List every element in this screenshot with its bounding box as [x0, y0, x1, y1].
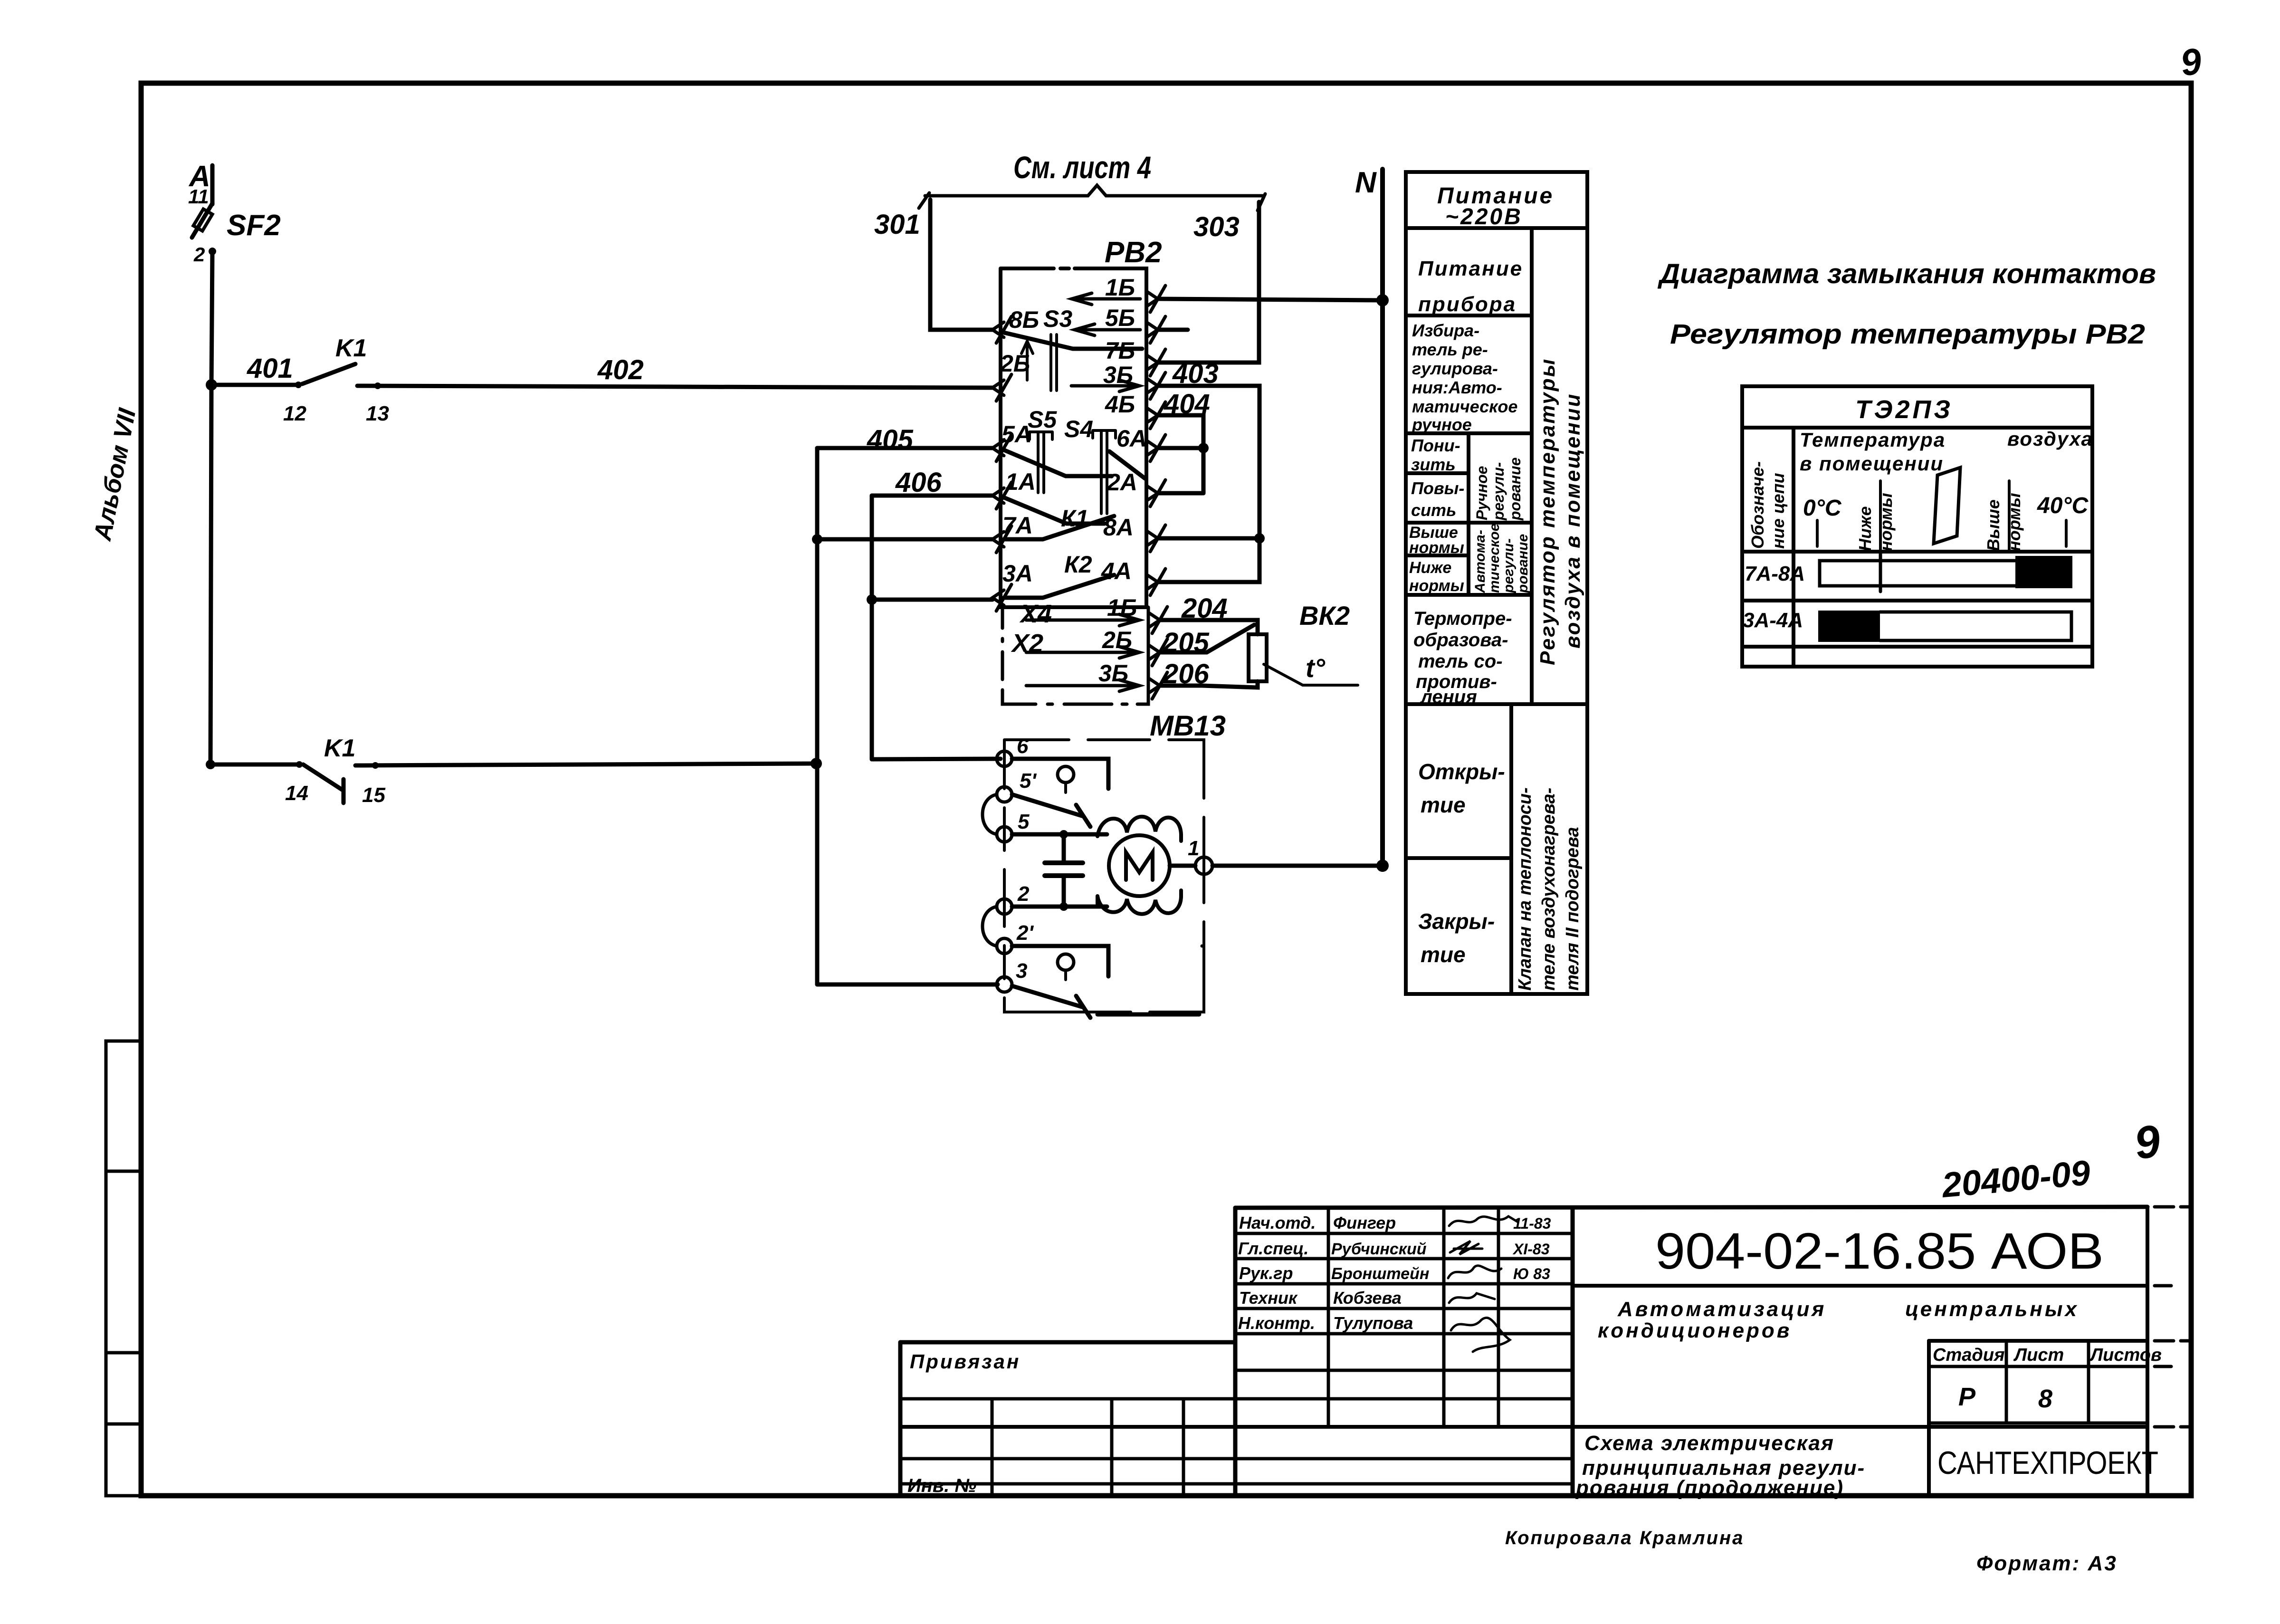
terminal 2 dot	[209, 248, 216, 255]
svg-text:15: 15	[362, 783, 385, 807]
left margin box 4	[106, 1424, 141, 1496]
terminal 2' circle	[997, 938, 1012, 954]
svg-text:ления: ления	[1420, 687, 1477, 707]
svg-text:5А: 5А	[1002, 421, 1032, 448]
privyazan box top	[900, 1340, 1235, 1345]
svg-text:204: 204	[1181, 593, 1228, 624]
signature table row 6 line	[1235, 1369, 1573, 1372]
junction dot V2 row 3А	[867, 594, 877, 605]
svg-text:Ручное: Ручное	[1473, 466, 1490, 520]
svg-text:Ниже: Ниже	[1409, 559, 1451, 577]
breaker SF2 blade	[192, 203, 212, 238]
svg-text:регули-: регули-	[1490, 462, 1507, 521]
scale tick 40°С	[2065, 520, 2068, 546]
signature table column sign	[1442, 1208, 1446, 1427]
svg-text:2А: 2А	[1107, 469, 1137, 496]
pin 1А left chevron	[992, 482, 1011, 509]
svg-text:тическое: тическое	[1487, 524, 1502, 593]
svg-text:Н.контр.: Н.контр.	[1238, 1313, 1315, 1333]
arrow on 3Б row	[1071, 380, 1139, 392]
limit switch roller stem bottom	[1064, 970, 1067, 980]
junction dot at 401	[206, 379, 217, 391]
svg-text:S5: S5	[1028, 406, 1057, 433]
svg-text:Рук.гр: Рук.гр	[1239, 1263, 1293, 1283]
svg-text:Температура: Температура	[1800, 429, 1946, 451]
terminal 3 circle	[997, 977, 1012, 992]
svg-text:K1: K1	[324, 735, 355, 762]
svg-text:Автоматизация: Автоматизация	[1617, 1298, 1826, 1321]
wire terminal 1 to N	[1212, 864, 1383, 868]
junction dot at lower K1	[206, 760, 215, 769]
wire terminal 6 to limit switch	[1012, 759, 1108, 789]
drawing frame border	[141, 83, 2191, 1496]
bar tick at ниже нормы	[1879, 551, 1882, 592]
svg-text:Гл.спец.: Гл.спец.	[1238, 1239, 1308, 1258]
left margin box 2	[106, 1171, 141, 1353]
lower columns v3	[1182, 1399, 1185, 1496]
stamp top edge	[1235, 1207, 2147, 1208]
svg-text:303: 303	[1193, 211, 1240, 242]
svg-text:рование: рование	[1515, 534, 1531, 593]
sensor t-degree leader	[1264, 664, 1358, 685]
svg-text:2: 2	[1017, 882, 1030, 906]
vertical V1	[815, 448, 820, 984]
svg-text:центральных: центральных	[1905, 1298, 2079, 1321]
svg-text:регули-: регули-	[1501, 538, 1517, 593]
svg-text:нормы: нормы	[1409, 577, 1464, 595]
svg-text:МВ13: МВ13	[1150, 710, 1226, 742]
link 5'-5 bracket	[983, 794, 997, 834]
svg-text:воздуха в помещении: воздуха в помещении	[1561, 393, 1584, 649]
contact bar 3А-4А filled segment	[1818, 611, 1880, 642]
svg-text:К1: К1	[1061, 505, 1089, 532]
device table ТЭ2ПЗ outer box	[1742, 386, 2092, 667]
svg-text:K1: K1	[335, 334, 367, 362]
svg-text:тель ре-: тель ре-	[1412, 340, 1488, 359]
limit switch blade top	[1012, 794, 1090, 827]
junction dot V1 row 7А	[812, 534, 822, 545]
pin 5А left chevron	[992, 435, 1011, 461]
svg-text:Клапан на теплоноси-: Клапан на теплоноси-	[1515, 787, 1535, 991]
pin 2А right chevron	[1146, 480, 1165, 506]
svg-text:нормы: нормы	[1409, 539, 1464, 557]
limit switch roller top	[1058, 766, 1074, 783]
svg-text:Пони-: Пони-	[1411, 436, 1460, 455]
contact K1 terminal 12 dot	[295, 382, 302, 388]
svg-text:3А: 3А	[1002, 560, 1033, 587]
lower columns v2	[1110, 1399, 1114, 1496]
svg-text:прибора: прибора	[1418, 293, 1517, 316]
wire terminal 5 to motor	[1012, 832, 1107, 837]
boundary tick ниже нормы	[1879, 481, 1882, 551]
wire 206	[1160, 681, 1258, 688]
wire 4А from 403 vertical	[1158, 538, 1259, 582]
wire 301 vertical	[930, 200, 992, 330]
signature table column name	[1327, 1208, 1330, 1427]
limit switch blade bottom	[1012, 986, 1090, 1018]
sig row 3 autograph	[1448, 1266, 1501, 1278]
wire SF2 to junction	[211, 251, 212, 385]
function table row line 1	[1406, 314, 1532, 317]
wire 404	[1158, 415, 1203, 493]
contact K1 inside РВ2	[1004, 516, 1114, 539]
signature table row 5 line	[1235, 1332, 1573, 1336]
svg-text:Выше: Выше	[1984, 499, 2003, 551]
svg-text:8А: 8А	[1103, 514, 1134, 541]
svg-text:Стадия: Стадия	[1933, 1345, 2004, 1365]
valve section rotated column divider	[1509, 704, 1513, 994]
motor M letter	[1126, 852, 1153, 880]
svg-text:Откры-: Откры-	[1418, 759, 1505, 784]
left margin box 3	[106, 1353, 141, 1424]
svg-text:ВК2: ВК2	[1299, 601, 1350, 630]
svg-text:11-83: 11-83	[1513, 1215, 1551, 1232]
svg-text:12: 12	[283, 402, 306, 425]
boundary tick выше нормы	[2008, 481, 2011, 551]
pin 4А right chevron	[1146, 569, 1165, 595]
svg-text:К2: К2	[1064, 551, 1092, 578]
switch S5 manual drive T-bar	[1030, 432, 1052, 439]
signature table row 7 line	[1235, 1397, 1573, 1401]
svg-text:1Б: 1Б	[1105, 274, 1135, 301]
stage column divider 1	[2005, 1341, 2008, 1423]
stage column divider 2	[2087, 1341, 2090, 1423]
svg-text:См. лист 4: См. лист 4	[1013, 150, 1151, 185]
terminal 6 circle	[997, 751, 1012, 766]
terminal 5' circle	[997, 787, 1012, 802]
switch S4 manual drive T-bar	[1093, 430, 1116, 438]
link 2-2' bracket	[983, 907, 1202, 946]
svg-text:Избира-: Избира-	[1412, 321, 1479, 340]
motor winding bottom scallops	[1097, 890, 1181, 914]
switch blade from 1А	[1004, 497, 1105, 524]
svg-text:4А: 4А	[1101, 558, 1132, 584]
sig row 5 autograph	[1451, 1318, 1510, 1352]
svg-text:матическое: матическое	[1412, 397, 1517, 416]
signature table row 1 line	[1235, 1232, 1573, 1235]
switch S5 linkage	[1038, 432, 1044, 493]
wire 403	[1158, 386, 1259, 538]
svg-text:ТЭ2ПЗ: ТЭ2ПЗ	[1855, 395, 1953, 424]
junction dot capacitor bottom	[1059, 902, 1068, 911]
wire 5Б stub	[1158, 328, 1188, 332]
stage header box top	[1929, 1339, 2147, 1343]
svg-text:Питание: Питание	[1418, 257, 1523, 280]
svg-text:3А-4А: 3А-4А	[1743, 609, 1803, 632]
svg-text:Рубчинский: Рубчинский	[1331, 1240, 1427, 1258]
wire motor to circle 1	[1170, 864, 1195, 868]
svg-text:14: 14	[285, 782, 308, 805]
svg-text:Инв. №: Инв. №	[907, 1475, 976, 1496]
limit switch roller bottom	[1058, 954, 1074, 970]
terminal 14 dot	[296, 761, 303, 768]
wire V2 bottom to МВ13 terminal 6	[872, 759, 1001, 759]
device table row line C	[1742, 645, 2092, 649]
motor winding top scallops	[1097, 817, 1181, 841]
privyazan lower row line	[900, 1397, 1235, 1401]
function table row line 5	[1406, 554, 1469, 557]
sensor ВК2 resistor body	[1249, 634, 1267, 681]
device table header line	[1742, 426, 2092, 430]
pin X2-3Б arrow	[1026, 680, 1139, 691]
svg-text:2Б: 2Б	[1102, 627, 1132, 653]
svg-text:сить: сить	[1411, 500, 1456, 520]
switch S5 blade from 5А	[1004, 450, 1112, 476]
dash continuation row 4	[2155, 1425, 2191, 1429]
motor M circle	[1109, 835, 1170, 896]
svg-text:404: 404	[1164, 389, 1210, 420]
pin X2-2Б chevron	[1148, 639, 1167, 666]
junction dot on N at motor wire	[1376, 860, 1389, 872]
svg-text:САНТЕХПРОЕКТ: САНТЕХПРОЕКТ	[1937, 1445, 2158, 1481]
wire 303 vertical to 7Б row	[1158, 202, 1259, 363]
svg-text:Тулупова: Тулупова	[1333, 1313, 1413, 1333]
wire 405 horizontal	[817, 446, 992, 450]
stamp left edge signature table	[1233, 1208, 1238, 1496]
wire 8А to 403 vertical	[1158, 536, 1259, 541]
device table row line A	[1742, 550, 2092, 554]
stamp right edge	[2146, 1207, 2149, 1496]
svg-text:402: 402	[597, 354, 644, 385]
svg-text:7Б: 7Б	[1105, 337, 1135, 364]
valve section open/close divider	[1406, 856, 1511, 860]
svg-text:11: 11	[188, 185, 209, 208]
svg-text:в помещении: в помещении	[1800, 452, 1944, 475]
svg-text:3Б: 3Б	[1098, 660, 1128, 687]
dash continuation row 1	[2155, 1205, 2191, 1209]
svg-text:2: 2	[193, 243, 205, 266]
svg-text:нормы: нормы	[2004, 493, 2024, 551]
svg-text:SF2: SF2	[227, 209, 281, 242]
svg-text:7А-8А: 7А-8А	[1745, 562, 1805, 585]
junction dot 6А	[1198, 443, 1209, 453]
svg-text:гулирова-: гулирова-	[1412, 359, 1498, 378]
function table row line 2	[1406, 431, 1532, 435]
arrow on 5Б row	[1075, 324, 1140, 335]
terminal 13 dot	[374, 382, 381, 389]
see-sheet-4 bracket line	[925, 185, 1263, 196]
terminal 15 dot	[372, 762, 379, 769]
svg-text:тие: тие	[1421, 942, 1466, 967]
wire row 3А	[872, 598, 992, 602]
wire from lower K1 to vertical V1	[355, 764, 816, 765]
svg-text:воздуха: воздуха	[2007, 428, 2093, 450]
junction dot 8А	[1254, 533, 1265, 544]
capacitor stem top	[1062, 834, 1066, 863]
function table right column divider	[1530, 228, 1534, 704]
svg-text:Термопре-: Термопре-	[1413, 608, 1512, 629]
svg-text:Р: Р	[1958, 1383, 1976, 1411]
sig row 4 autograph	[1449, 1293, 1495, 1303]
device РВ2 outline dash	[1060, 267, 1069, 270]
svg-text:N: N	[1355, 166, 1377, 199]
svg-text:ние цепи: ние цепи	[1768, 473, 1788, 549]
svg-text:Копировала Крамлина: Копировала Крамлина	[1505, 1528, 1744, 1548]
wire row 7А	[817, 537, 992, 542]
svg-text:Регулятор температуры РВ2: Регулятор температуры РВ2	[1670, 319, 2145, 350]
limit switch roller stem top	[1064, 783, 1067, 793]
svg-text:Регулятор температуры: Регулятор температуры	[1536, 358, 1559, 665]
pin 2Б left chevron	[992, 374, 1011, 401]
junction dot capacitor top	[1059, 830, 1068, 839]
function table outer box	[1406, 172, 1587, 994]
svg-text:5: 5	[1018, 810, 1030, 833]
junction dot V1 at K1 wire	[811, 758, 822, 769]
svg-text:1: 1	[1188, 837, 1199, 860]
svg-text:6: 6	[1017, 735, 1029, 758]
svg-text:Техник: Техник	[1239, 1288, 1298, 1308]
svg-text:3: 3	[1016, 959, 1027, 983]
stamp mid horizontal line	[900, 1425, 2147, 1429]
svg-text:401: 401	[247, 353, 293, 384]
svg-text:5': 5'	[1020, 769, 1037, 793]
svg-text:205: 205	[1163, 627, 1210, 658]
svg-text:Кобзева: Кобзева	[1333, 1288, 1402, 1308]
svg-text:Ниже: Ниже	[1855, 506, 1875, 551]
svg-text:301: 301	[874, 209, 920, 240]
contact bar 7А-8А outline	[1820, 561, 2017, 586]
svg-text:ручное: ручное	[1412, 415, 1472, 434]
stage header box bottom	[1929, 1365, 2147, 1368]
line under document number	[1573, 1284, 2147, 1288]
pin 7Б right chevron	[1146, 349, 1165, 376]
pin 5Б right chevron	[1146, 316, 1165, 343]
svg-text:2': 2'	[1016, 921, 1034, 945]
svg-text:405: 405	[867, 424, 914, 455]
lower columns v1	[991, 1399, 994, 1496]
stamp lower rows line b	[900, 1482, 1573, 1486]
svg-text:Бронштейн: Бронштейн	[1331, 1265, 1429, 1283]
svg-text:тие: тие	[1421, 793, 1466, 817]
svg-text:XI-83: XI-83	[1512, 1241, 1550, 1258]
svg-text:40°С: 40°С	[2037, 493, 2089, 518]
breaker SF2 box symbol	[193, 209, 212, 231]
svg-text:Повы-: Повы-	[1411, 478, 1464, 498]
svg-text:Нач.отд.: Нач.отд.	[1239, 1213, 1316, 1232]
pin 7А left chevron	[992, 526, 1011, 553]
sig row 2 autograph	[1450, 1241, 1482, 1254]
svg-text:РВ2: РВ2	[1105, 236, 1162, 269]
pin X2-2Б arrow	[1026, 647, 1139, 658]
wire to contact K1 lower	[210, 763, 299, 767]
stamp vertical title area left	[1571, 1208, 1575, 1496]
stage box left edge	[1927, 1341, 1931, 1496]
function table row line 3	[1406, 471, 1469, 475]
signature table row 3 line	[1235, 1282, 1573, 1286]
wire 406 horizontal	[872, 494, 992, 498]
pin 8Б left chevron	[992, 316, 1011, 343]
svg-text:рование: рование	[1507, 458, 1524, 521]
dash continuation row 5	[2155, 1284, 2171, 1288]
wire V1 bottom to МВ13 terminal 3	[817, 983, 998, 987]
contact bar 3А-4А outline	[1880, 612, 2071, 640]
vertical V2	[870, 496, 874, 759]
wire 2А from 404 vertical	[1158, 491, 1203, 496]
motor terminal 1 circle	[1195, 857, 1212, 874]
arrow on 1Б row	[1072, 293, 1140, 305]
pin 3Б right chevron	[1146, 373, 1165, 399]
wire from phase A down to breaker SF2	[210, 165, 215, 204]
svg-text:Автома-: Автома-	[1472, 530, 1488, 593]
svg-text:ния:Авто-: ния:Авто-	[1412, 378, 1502, 397]
wire 6А to junction	[1158, 446, 1203, 450]
pin 1Б right chevron	[1146, 286, 1165, 312]
signature table column date	[1497, 1208, 1500, 1427]
wire 204	[1160, 620, 1258, 634]
dash continuation row 3	[2155, 1365, 2171, 1368]
setpoint parallelogram	[1934, 468, 1960, 544]
wire terminal 2 to motor	[1012, 905, 1107, 909]
contact K2 inside РВ2	[1004, 575, 1114, 598]
pin X2-3Б chevron	[1148, 672, 1167, 699]
svg-text:5Б: 5Б	[1105, 305, 1135, 331]
scale tick 0°С	[1816, 520, 1819, 546]
wire from junction down to lower K1	[210, 385, 211, 764]
svg-text:теля II подогрева: теля II подогрева	[1563, 827, 1583, 991]
svg-text:8: 8	[2038, 1385, 2052, 1413]
pin 8А right chevron	[1146, 525, 1165, 552]
pin 4Б right chevron	[1146, 402, 1165, 429]
device РВ2 outline	[1001, 268, 1146, 607]
svg-text:13: 13	[366, 402, 389, 425]
switch S3 blade	[1004, 333, 1142, 349]
actuator МВ13 boundary dash-dot	[1004, 740, 1204, 1012]
svg-text:6А: 6А	[1116, 425, 1147, 452]
svg-text:Х4: Х4	[1019, 600, 1052, 628]
svg-text:образова-: образова-	[1413, 630, 1508, 650]
bracket right tick	[1258, 194, 1265, 210]
svg-text:S4: S4	[1064, 416, 1093, 442]
svg-text:406: 406	[895, 467, 942, 498]
wire 205 diagonal	[1160, 625, 1254, 652]
function table row line 4	[1406, 521, 1532, 525]
svg-text:Формат: А3: Формат: А3	[1976, 1552, 2118, 1575]
switch S3 linkage	[1051, 334, 1057, 391]
svg-text:S3: S3	[1043, 306, 1072, 332]
stage row bottom	[1929, 1422, 2147, 1425]
pin 3А left chevron	[992, 584, 1011, 611]
contact bar 7А-8А filled segment	[2015, 556, 2072, 588]
bracket left tick	[919, 193, 929, 208]
signature table row 4 line	[1235, 1307, 1573, 1310]
pin X2-1Б chevron	[1148, 607, 1167, 633]
switch S4 linkage	[1101, 430, 1107, 514]
wire lower switch to block bottom	[1097, 1013, 1199, 1017]
device table row line B	[1742, 599, 2092, 602]
svg-text:206: 206	[1163, 659, 1210, 689]
svg-text:904-02-16.85 АОВ: 904-02-16.85 АОВ	[1655, 1222, 2104, 1280]
capacitor stem bottom	[1062, 876, 1066, 907]
svg-text:1А: 1А	[1005, 468, 1036, 495]
wire 401	[211, 383, 298, 387]
svg-text:Привязан: Привязан	[910, 1350, 1021, 1373]
function table sub column divider	[1467, 433, 1470, 595]
direction arrow near 2Б	[1021, 341, 1033, 380]
device table left column divider	[1792, 428, 1795, 667]
svg-text:0°С: 0°С	[1803, 496, 1842, 521]
svg-text:t°: t°	[1306, 653, 1326, 683]
svg-text:Фингер: Фингер	[1333, 1213, 1396, 1232]
svg-text:Закры-: Закры-	[1418, 909, 1495, 934]
contact K1 blade (lower)	[303, 764, 343, 803]
terminal 2 circle	[997, 899, 1012, 914]
svg-text:Листов: Листов	[2089, 1345, 2162, 1365]
svg-text:рования (продолжение): рования (продолжение)	[1575, 1476, 1844, 1500]
capacitor plates	[1045, 863, 1083, 876]
svg-text:1Б: 1Б	[1107, 594, 1137, 621]
connector X2 boundary dash-dot	[1002, 607, 1148, 704]
bus N vertical line	[1380, 169, 1385, 866]
